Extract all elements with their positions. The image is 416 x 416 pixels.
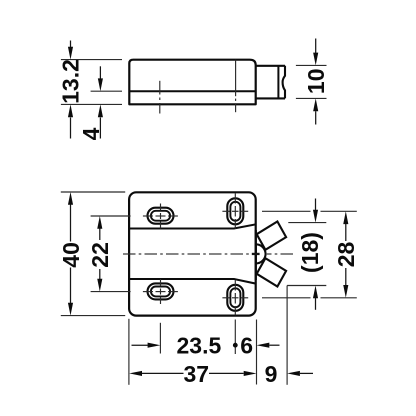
bottom vertical extension line hole-center-right	[234, 320, 236, 355]
hole bottom-left crosshair	[143, 279, 178, 304]
hole top-left inner obround	[151, 211, 170, 221]
plunger face line	[277, 66, 279, 99]
extension lines for 10 (right of plunger)	[296, 64, 327, 66]
dimension (18) arrows	[313, 199, 318, 310]
plunger bottom edge	[256, 97, 285, 99]
body right edge redraw over circle	[255, 230, 257, 280]
latch pivot half-circle	[256, 244, 266, 263]
22 extension line bottom	[91, 291, 131, 293]
side view body outline	[129, 60, 255, 105]
22 extension line top	[91, 215, 131, 217]
interior line bottom flange	[129, 279, 255, 284]
svg-text:9: 9	[265, 361, 278, 387]
bottom vertical extension line body-left	[128, 319, 130, 385]
bottom vertical extension line wing-tip	[286, 286, 288, 385]
(18) extension line bottom	[287, 285, 326, 287]
extension line divider (4)	[91, 90, 122, 92]
bottom vertical extension line hole-center-left	[159, 323, 161, 354]
extension line top (13.2)	[61, 59, 122, 61]
centerline hole axis left (side view)	[159, 81, 161, 114]
dimension 40 line and arrows	[68, 192, 73, 316]
hole bottom-left inner obround	[151, 287, 170, 297]
horizontal centerline	[123, 253, 293, 255]
hole bottom-right inner obround	[230, 288, 240, 307]
svg-text:6: 6	[240, 332, 253, 358]
hole bottom-left outer obround	[148, 283, 174, 299]
dimension 22 line and arrows	[97, 216, 102, 292]
40 extension line top	[61, 191, 125, 193]
28 extension line bottom	[262, 297, 357, 299]
svg-text:37: 37	[184, 361, 210, 387]
interior line top flange	[129, 224, 255, 228]
dimension 6 arrow	[257, 343, 280, 348]
dimension 10 arrows	[313, 39, 318, 125]
dimension 28 line and arrows	[343, 211, 348, 297]
hole bottom-right crosshair	[222, 280, 248, 315]
centerline hole axis right (side view)	[235, 60, 237, 112]
svg-text:28: 28	[333, 242, 359, 268]
hole top-right outer obround (vertical slot)	[227, 198, 243, 224]
dimension 13.2 arrows	[68, 41, 73, 139]
svg-text:23.5: 23.5	[177, 332, 222, 358]
hole bottom-right outer obround (vertical slot)	[227, 285, 243, 311]
svg-text:(18): (18)	[297, 232, 323, 273]
svg-text:22: 22	[87, 242, 113, 268]
dot separator 23.5/6	[233, 343, 238, 348]
hole top-right crosshair	[222, 193, 248, 229]
plunger break edge with notch	[283, 66, 285, 99]
hole top-left crosshair	[143, 204, 178, 229]
side view divider line (4mm flange)	[129, 90, 255, 92]
svg-text:40: 40	[58, 242, 84, 268]
svg-text:13.2: 13.2	[57, 59, 83, 104]
centerline dash at pivot	[252, 253, 260, 255]
dimension 4 arrows	[98, 66, 103, 138]
hole top-right inner obround	[230, 202, 240, 221]
svg-text:10: 10	[303, 69, 329, 95]
dimension 37 line and arrows	[129, 371, 256, 376]
extension line bottom (13.2/4)	[61, 103, 122, 105]
dimension 9 arrow	[287, 371, 313, 376]
bottom vertical extension line body-right	[256, 320, 258, 385]
svg-text:4: 4	[78, 127, 104, 140]
front view body outline	[129, 192, 256, 315]
(18) extension line top	[288, 222, 326, 224]
plunger top edge	[256, 65, 285, 67]
latch upper wing	[257, 222, 286, 250]
28 extension line top	[262, 210, 357, 212]
latch lower wing	[257, 258, 286, 286]
40 extension line bottom	[61, 315, 125, 317]
hole top-left outer obround	[148, 208, 174, 224]
dimension 23.5 arrow and tail	[132, 343, 161, 348]
